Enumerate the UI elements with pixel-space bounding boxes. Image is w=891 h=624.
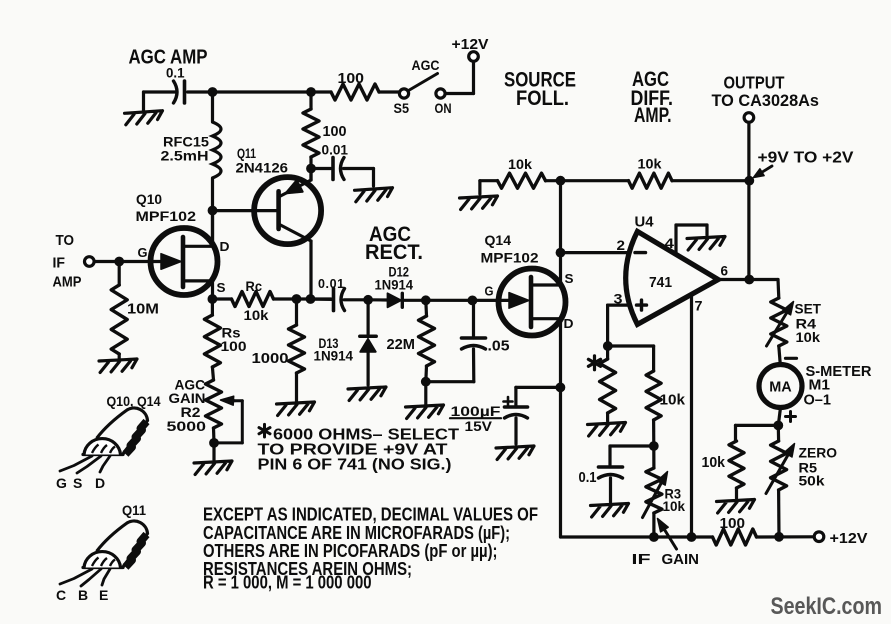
ground at pin 4 [687, 237, 726, 250]
terminal +12V (top) [469, 52, 479, 62]
svg-text:100µF: 100µF [451, 404, 501, 419]
wire: bottom rail [561, 535, 713, 538]
svg-text:S: S [565, 271, 574, 286]
svg-text:G: G [485, 284, 494, 299]
wire: D12 output to Q14 gate [426, 299, 509, 302]
resistor 10M (gate to ground) [118, 262, 121, 286]
svg-text:G: G [56, 475, 67, 491]
terminal OUTPUT TO CA3028As [744, 113, 754, 123]
svg-text:Q11: Q11 [122, 502, 146, 518]
terminal +12V (bottom) [814, 532, 824, 542]
svg-text:1N914: 1N914 [314, 348, 354, 364]
svg-text:MPF102: MPF102 [136, 208, 197, 224]
svg-text:PIN 6 OF 741 (NO SIG.): PIN 6 OF 741 (NO SIG.) [258, 457, 452, 474]
svg-text:D: D [95, 475, 105, 491]
svg-text:AGC: AGC [412, 57, 440, 73]
resistor * 6000 ohm select (pin3 to ground) [606, 346, 609, 359]
potentiometer R2 5000 AGC GAIN [212, 367, 213, 380]
resistor 10k (meter shunt to ground) [736, 424, 779, 427]
node: gate / 10M junction [114, 257, 124, 267]
wire: Q10 drain up to node [211, 211, 214, 247]
ground under left 10k [460, 196, 499, 209]
svg-text:10k: 10k [660, 393, 686, 409]
wire: top rail from input cap to 100ohm resistor [144, 90, 177, 93]
svg-text:1N914: 1N914 [375, 277, 414, 293]
diode D12 1N914 (series) [368, 298, 387, 301]
svg-text:S: S [73, 475, 82, 491]
svg-text:1000: 1000 [252, 351, 289, 367]
resistor 10k (pin3 to IF gain pot) [608, 344, 654, 347]
wire: pin4 to ground [674, 225, 677, 254]
wire: 22M bottom to .05 capacitor bottom [426, 380, 474, 383]
svg-text:10k: 10k [702, 455, 726, 471]
ground under star resistor [588, 423, 627, 436]
svg-text:FOLL.: FOLL. [516, 87, 569, 110]
node: meter + junction [773, 421, 783, 431]
meter M1 MA (S-METER) [779, 346, 781, 365]
svg-text:TO: TO [56, 233, 75, 249]
wire: output rail vertical [747, 122, 750, 279]
svg-text:RECT.: RECT. [365, 241, 423, 264]
svg-text:U4: U4 [635, 215, 654, 231]
wire: Q14 drain down to 100uF node [559, 319, 562, 388]
svg-text:22M: 22M [387, 337, 416, 353]
resistor 1000 (Q11 collector load) [295, 299, 298, 325]
wire: pin7 down to bottom rail [690, 294, 693, 537]
op-amp U4 741 [626, 231, 719, 324]
node: Q11 emitter / 0.01 cap junction [306, 164, 316, 174]
svg-text:AGC AMP: AGC AMP [129, 47, 208, 69]
transistor Q14 MPF102 (JFET source follower) [499, 269, 566, 336]
wire: Q10 source down to Rc row [211, 281, 214, 299]
svg-text:S: S [217, 280, 226, 295]
transistor Q10 MPF102 (JFET) [151, 228, 218, 295]
node: 22M top junction [421, 295, 431, 305]
svg-text:.05: .05 [488, 339, 510, 355]
wire: RFC15 to Q10 drain node [211, 178, 214, 246]
node: Q10 drain / Q11 base junction [208, 206, 218, 216]
resistor 100 (Q11 emitter load, vertical) [309, 92, 312, 109]
svg-text:2N4126: 2N4126 [236, 160, 289, 176]
svg-text:G: G [138, 245, 148, 260]
node: 100uF junction [556, 383, 566, 393]
wire: meter to + node [778, 408, 780, 426]
svg-text:100: 100 [338, 71, 365, 87]
capacitor 0.01 (Q11 emitter bypass) [311, 167, 331, 170]
potentiometer R5 ZERO 50k [777, 425, 780, 441]
svg-text:+9V TO +2V: +9V TO +2V [758, 150, 855, 167]
node: output junction [744, 275, 754, 285]
label +9V TO +2V with arrow [762, 166, 772, 172]
ground under meter 10k [717, 500, 756, 513]
svg-text:2: 2 [617, 238, 626, 253]
wire: pin3 network [608, 304, 628, 307]
svg-text:741: 741 [649, 275, 672, 291]
wire: switch to +12V terminal [445, 92, 473, 95]
capacitor .05 [472, 301, 475, 339]
node: R5 bottom on rail [774, 532, 784, 542]
node: pin3 / star resistor / 10k junction [603, 341, 613, 351]
ground under 10M [99, 359, 138, 372]
terminal: TO IF AMP input [85, 257, 95, 267]
svg-text:TO CA3028As: TO CA3028As [712, 92, 820, 110]
svg-text:15V: 15V [465, 419, 493, 434]
resistor 100 (top rail to switch S5) [331, 84, 379, 100]
svg-text:ZERO: ZERO [799, 445, 838, 461]
svg-text:MA: MA [769, 380, 792, 396]
svg-text:100: 100 [221, 338, 247, 354]
svg-text:10k: 10k [796, 329, 821, 345]
svg-text:IF: IF [53, 256, 66, 272]
node: Q14 source / op-amp pin2 [556, 248, 566, 258]
svg-text:IF: IF [632, 552, 651, 568]
svg-text:100: 100 [720, 516, 746, 532]
wire: Rc row (Q10 source rail) [208, 294, 218, 304]
wire: main vertical from 100uF node to bottom rail [559, 387, 562, 537]
node: 22M bottom / .05 return junction [421, 377, 431, 387]
svg-text:ON: ON [435, 101, 452, 116]
svg-text:0.01: 0.01 [322, 142, 349, 158]
inductor RFC15 2.5mH [211, 92, 214, 122]
svg-text:S5: S5 [394, 101, 410, 116]
node: top rail / 100ohm vertical resistor branch [306, 87, 316, 97]
svg-text:AMP.: AMP. [634, 104, 672, 127]
svg-text:7: 7 [695, 299, 703, 314]
capacitor 0.1 input coupling [183, 81, 187, 103]
svg-text:Q10: Q10 [136, 191, 162, 207]
resistor Rc 10k [232, 292, 274, 307]
ground under 1000 [277, 402, 316, 415]
resistor 22M [424, 300, 428, 316]
node: +9V tap [744, 176, 754, 186]
svg-text:AMP: AMP [53, 275, 82, 291]
svg-text:4: 4 [665, 236, 675, 251]
svg-text:O–1: O–1 [804, 393, 832, 409]
svg-text:10k: 10k [244, 307, 269, 323]
node: 1000 ohm branch [292, 294, 302, 304]
wire: pin6 output to right rail [718, 278, 749, 281]
resistor 10k (to +9V rail) [561, 179, 629, 182]
capacitor 100uF 15V electrolytic [516, 386, 561, 389]
svg-text:B: B [78, 587, 88, 603]
resistor 10k (to ground, op-amp input) [480, 179, 498, 182]
node: Q14 gate junction [468, 296, 478, 306]
svg-text:10k: 10k [663, 498, 686, 514]
resistor Rs 100 (source resistor) [211, 299, 214, 315]
svg-text:MPF102: MPF102 [481, 250, 539, 266]
svg-text:D: D [564, 316, 574, 331]
svg-text:0.01: 0.01 [318, 277, 345, 291]
svg-text:Rc: Rc [246, 278, 263, 294]
svg-text:+12V: +12V [830, 530, 868, 547]
note *6000 ohms select [263, 424, 266, 437]
svg-text:100: 100 [323, 124, 347, 140]
node: pin7 on rail [687, 532, 697, 542]
ground under D13 [348, 387, 387, 400]
svg-text:R = 1 000, M = 1 000 000: R = 1 000, M = 1 000 000 [203, 572, 372, 593]
switch S5 (AGC on/off) [399, 89, 408, 98]
ground under 0.1 [591, 504, 630, 517]
wire: pin2 to op-amp [561, 251, 630, 254]
resistor 100 (bottom, +12V feed) [713, 529, 757, 545]
ground under R2 [212, 443, 215, 460]
svg-text:Q14: Q14 [485, 232, 512, 248]
svg-text:OUTPUT: OUTPUT [724, 73, 785, 93]
svg-text:+12V: +12V [452, 36, 489, 53]
svg-text:GAIN: GAIN [662, 552, 700, 568]
arrow + label IF GAIN [664, 530, 676, 550]
node: D13 junction [363, 295, 373, 305]
node: Q11 collector on row [306, 294, 316, 304]
svg-text:5000: 5000 [167, 418, 207, 434]
wire: output to R4 [749, 278, 778, 281]
svg-text:SeekIC.com: SeekIC.com [771, 593, 883, 620]
ground under 100uF [496, 446, 535, 459]
svg-text:50k: 50k [799, 473, 825, 489]
svg-text:D: D [220, 239, 230, 254]
node: R2 bottom / wiper junction [209, 438, 219, 448]
svg-text:2.5mH: 2.5mH [161, 148, 209, 164]
ground under 22M [424, 382, 427, 404]
capacitor 0.01 (AGC rect coupling) [311, 297, 332, 301]
transistor Q11 2N4126 (PNP) [254, 177, 321, 244]
potentiometer R4 SET 10k [771, 298, 787, 346]
svg-text:0.1: 0.1 [579, 470, 597, 486]
node: 10k/10k divider junction [556, 176, 566, 186]
potentiometer R3 10k IF GAIN [652, 446, 655, 468]
ground: top-left at input cap [142, 92, 145, 111]
node: R3 bottom on rail [649, 532, 659, 542]
svg-text:SET: SET [795, 301, 822, 317]
svg-text:10M: 10M [127, 302, 159, 318]
node: 10k / 0.1 / R3 junction [649, 441, 659, 451]
svg-text:M1: M1 [809, 378, 831, 394]
svg-text:C: C [56, 587, 66, 603]
node: junction of cap / RFC15 / top rail [208, 87, 218, 97]
svg-text:6: 6 [721, 264, 729, 279]
svg-text:E: E [99, 587, 108, 603]
svg-text:10k: 10k [638, 156, 662, 172]
svg-text:10k: 10k [508, 156, 532, 172]
wire: Q14 source up to summing node [559, 253, 562, 285]
wire + ground for 0.01 bypass cap [344, 167, 374, 170]
capacitor 0.1 (bottom bypass) [610, 444, 654, 447]
diode D13 1N914 (shunt to ground, cathode up) [367, 300, 370, 334]
